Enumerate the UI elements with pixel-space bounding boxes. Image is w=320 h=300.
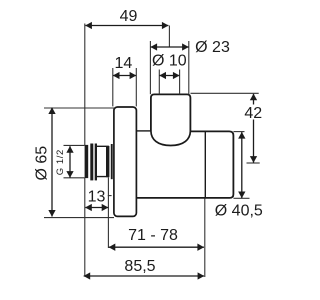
svg-text:49: 49 [120,8,138,25]
svg-text:13: 13 [88,189,106,206]
svg-text:85,5: 85,5 [124,258,155,275]
svg-text:42: 42 [244,105,262,122]
svg-text:Ø 10: Ø 10 [152,53,187,70]
svg-text:Ø 65: Ø 65 [33,146,50,181]
svg-text:G 1/2: G 1/2 [55,149,66,175]
svg-text:71 - 78: 71 - 78 [128,227,178,244]
svg-text:14: 14 [115,55,133,72]
svg-text:Ø 23: Ø 23 [195,39,230,56]
svg-text:Ø 40,5: Ø 40,5 [215,203,263,220]
